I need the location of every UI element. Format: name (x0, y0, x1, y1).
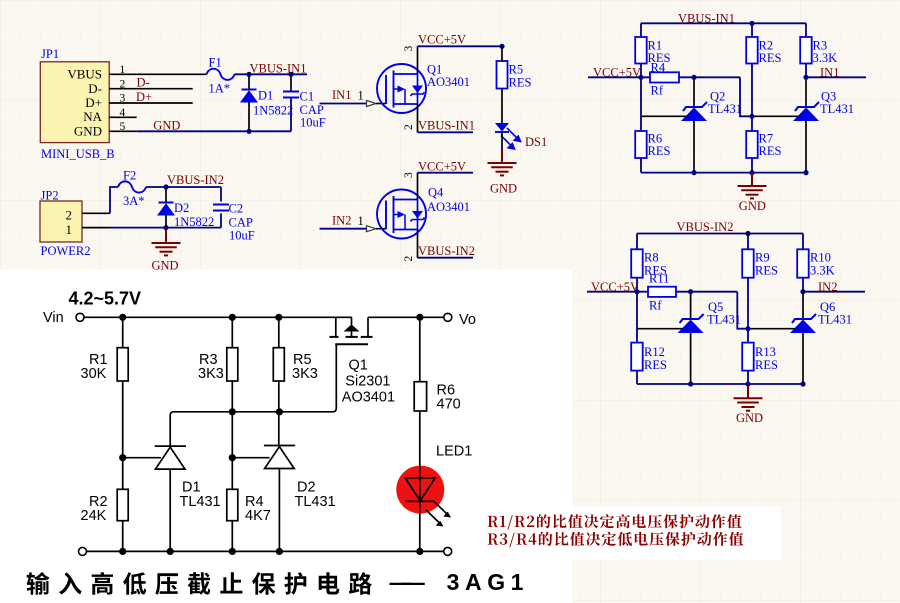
svg-text:Q1: Q1 (349, 357, 368, 373)
svg-text:R4: R4 (651, 61, 666, 75)
svg-text:D1: D1 (258, 89, 273, 103)
svg-text:VCC+5V: VCC+5V (593, 66, 641, 80)
svg-text:24K: 24K (81, 508, 107, 524)
svg-text:1: 1 (66, 222, 73, 237)
svg-text:JP2: JP2 (41, 189, 59, 203)
svg-text:5: 5 (120, 121, 126, 133)
svg-text:RES: RES (755, 358, 778, 372)
svg-text:VBUS-IN1: VBUS-IN1 (418, 119, 475, 133)
svg-text:RES: RES (509, 76, 532, 90)
svg-text:LED1: LED1 (436, 443, 472, 459)
svg-text:JP1: JP1 (41, 47, 59, 61)
svg-text:2: 2 (66, 208, 73, 223)
svg-text:C2: C2 (229, 202, 244, 216)
svg-text:GND: GND (153, 118, 180, 132)
svg-text:GND: GND (739, 199, 766, 213)
svg-text:MINI_USB_B: MINI_USB_B (41, 147, 115, 161)
svg-text:1N5822: 1N5822 (174, 215, 214, 229)
svg-text:R11: R11 (649, 272, 669, 286)
svg-text:VBUS-IN2: VBUS-IN2 (418, 244, 475, 258)
svg-text:RES: RES (759, 144, 782, 158)
svg-text:RES: RES (759, 51, 782, 65)
svg-text:TL431: TL431 (820, 102, 854, 116)
svg-text:C1: C1 (300, 90, 315, 104)
svg-text:D+: D+ (136, 90, 152, 104)
svg-text:RES: RES (648, 144, 671, 158)
svg-text:3: 3 (403, 172, 415, 178)
svg-text:IN2: IN2 (332, 213, 351, 227)
svg-text:R13: R13 (755, 345, 776, 359)
svg-text:1: 1 (120, 64, 126, 76)
svg-text:AO3401: AO3401 (427, 75, 470, 89)
svg-text:R12: R12 (644, 345, 665, 359)
svg-text:2: 2 (120, 78, 126, 90)
svg-text:4.2~5.7V: 4.2~5.7V (69, 289, 142, 309)
svg-text:AO3401: AO3401 (342, 390, 395, 406)
svg-text:2: 2 (403, 256, 415, 262)
svg-text:10uF: 10uF (300, 116, 326, 130)
svg-text:3: 3 (120, 93, 126, 105)
svg-text:3K3: 3K3 (198, 366, 224, 382)
svg-text:VBUS-IN2: VBUS-IN2 (167, 173, 224, 187)
svg-text:TL431: TL431 (708, 102, 742, 116)
svg-text:D-: D- (137, 76, 150, 90)
svg-text:3: 3 (403, 46, 415, 52)
svg-text:VBUS: VBUS (67, 67, 102, 82)
svg-text:RES: RES (644, 358, 667, 372)
svg-text:1A*: 1A* (209, 82, 231, 96)
svg-text:30K: 30K (81, 366, 107, 382)
svg-text:TL431: TL431 (180, 494, 221, 510)
svg-text:F2: F2 (123, 169, 136, 183)
svg-text:POWER2: POWER2 (41, 244, 91, 258)
svg-text:F1: F1 (209, 56, 222, 70)
svg-text:GND: GND (74, 123, 102, 138)
svg-text:Rf: Rf (651, 84, 664, 98)
svg-text:VCC+5V: VCC+5V (418, 159, 466, 173)
svg-text:IN2: IN2 (818, 280, 837, 294)
svg-text:GND: GND (490, 182, 517, 196)
svg-text:D+: D+ (85, 95, 102, 110)
svg-text:GND: GND (152, 259, 179, 273)
svg-text:AO3401: AO3401 (427, 200, 470, 214)
svg-text:3.3K: 3.3K (810, 264, 835, 278)
svg-text:R5: R5 (509, 63, 524, 77)
svg-text:VBUS-IN2: VBUS-IN2 (677, 220, 734, 234)
svg-text:NA: NA (83, 109, 102, 124)
svg-text:4K7: 4K7 (245, 508, 271, 524)
svg-text:Q4: Q4 (428, 186, 444, 200)
svg-text:3K3: 3K3 (292, 366, 318, 382)
svg-text:Rf: Rf (649, 299, 662, 313)
svg-text:Si2301: Si2301 (345, 374, 390, 390)
svg-text:3.3K: 3.3K (813, 51, 838, 65)
svg-text:RES: RES (755, 264, 778, 278)
svg-text:Vo: Vo (459, 312, 476, 328)
svg-text:Vin: Vin (43, 310, 64, 326)
svg-text:VCC+5V: VCC+5V (591, 280, 639, 294)
svg-text:TL431: TL431 (707, 313, 741, 327)
svg-text:VCC+5V: VCC+5V (418, 33, 466, 47)
svg-text:470: 470 (437, 396, 461, 412)
svg-text:DS1: DS1 (525, 135, 547, 149)
svg-text:IN1: IN1 (332, 88, 351, 102)
svg-text:D-: D- (88, 81, 102, 96)
svg-text:——: —— (390, 569, 425, 595)
svg-text:4: 4 (120, 107, 126, 119)
svg-text:CAP: CAP (229, 216, 253, 230)
svg-text:1: 1 (358, 214, 364, 228)
svg-text:3AG1: 3AG1 (447, 569, 529, 595)
svg-text:TL431: TL431 (295, 494, 336, 510)
svg-text:TL431: TL431 (818, 313, 852, 327)
svg-text:1: 1 (358, 89, 364, 103)
svg-text:1N5822: 1N5822 (253, 104, 293, 118)
svg-text:D2: D2 (174, 201, 189, 215)
svg-text:GND: GND (736, 411, 763, 425)
svg-text:IN1: IN1 (820, 66, 839, 80)
svg-text:10uF: 10uF (229, 229, 255, 243)
svg-text:3A*: 3A* (123, 194, 145, 208)
svg-text:2: 2 (403, 124, 415, 130)
